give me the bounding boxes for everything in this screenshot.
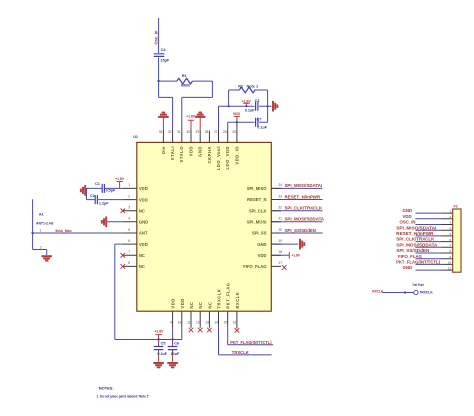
svg-text:0.5pF: 0.5pF [106, 189, 116, 193]
svg-text:30: 30 [186, 130, 190, 134]
svg-text:+1.8V: +1.8V [242, 99, 252, 103]
svg-text:26: 26 [223, 130, 227, 134]
svg-text:RXCLK: RXCLK [372, 289, 384, 293]
svg-text:VDD: VDD [139, 197, 148, 202]
svg-text:SPI_SS: SPI_SS [252, 231, 267, 236]
svg-text:OSC_IN: OSC_IN [400, 220, 416, 225]
svg-text:4: 4 [128, 217, 130, 221]
svg-text:XTALI: XTALI [170, 146, 175, 160]
svg-text:PKT_FLAG(INT/TCTL): PKT_FLAG(INT/TCTL) [396, 260, 441, 265]
svg-text:+1.8V: +1.8V [115, 177, 125, 181]
svg-text:C1: C1 [95, 182, 100, 186]
svg-text:1: 1 [128, 183, 130, 187]
svg-text:VDD_IO: VDD_IO [234, 146, 239, 165]
svg-text:GND: GND [403, 208, 413, 213]
svg-text:28: 28 [205, 130, 209, 134]
svg-text:10: 10 [448, 261, 452, 265]
svg-text:18: 18 [279, 250, 283, 254]
svg-text:32: 32 [168, 130, 172, 134]
svg-text:17: 17 [279, 261, 283, 265]
svg-text:GND: GND [257, 242, 266, 247]
svg-text:1. Do not place parts labeled: 1. Do not place parts labeled 'Note 1' [96, 394, 149, 398]
svg-text:33: 33 [159, 130, 163, 134]
svg-text:31: 31 [177, 130, 181, 134]
svg-text:6: 6 [128, 239, 130, 243]
svg-text:RXCLK: RXCLK [235, 292, 240, 309]
svg-text:R1: R1 [182, 74, 187, 78]
svg-text:27: 27 [214, 130, 218, 134]
svg-text:+1.8V: +1.8V [154, 330, 164, 334]
svg-text:3: 3 [128, 206, 130, 210]
svg-text:C4: C4 [161, 48, 167, 52]
svg-text:Osc_In: Osc_In [153, 30, 158, 44]
svg-text:PKT_FLAG(INT/TCTL): PKT_FLAG(INT/TCTL) [230, 340, 272, 345]
svg-text:U1: U1 [133, 135, 138, 139]
svg-text:9: 9 [170, 320, 172, 324]
svg-text:NC: NC [139, 264, 145, 269]
svg-text:R2: R2 [238, 85, 243, 89]
svg-text:5: 5 [128, 228, 130, 232]
svg-text:22: 22 [279, 206, 283, 210]
svg-text:SPI_CLK: SPI_CLK [249, 208, 267, 213]
svg-text:ANT: ANT [139, 231, 148, 236]
svg-text:RESET_N/InPWR: RESET_N/InPWR [285, 194, 321, 199]
svg-text:PKT_FLAG: PKT_FLAG [226, 282, 231, 308]
svg-text:15pF: 15pF [160, 58, 170, 62]
svg-text:+1.8V: +1.8V [291, 254, 301, 258]
svg-text:VDD: VDD [188, 146, 193, 156]
svg-text:XTALO: XTALO [179, 146, 184, 163]
svg-text:VDD: VDD [233, 112, 241, 116]
svg-text:NC: NC [139, 208, 145, 213]
svg-text:13: 13 [205, 320, 209, 324]
svg-text:15: 15 [224, 320, 228, 324]
svg-text:ANT1-2.4G: ANT1-2.4G [36, 222, 54, 226]
svg-text:NC: NC [139, 253, 145, 258]
svg-text:10: 10 [178, 320, 182, 324]
svg-text:SPI_SS/SDdEN: SPI_SS/SDdEN [396, 248, 429, 253]
svg-text:25: 25 [232, 130, 236, 134]
svg-text:21: 21 [279, 217, 283, 221]
svg-text:C5: C5 [161, 342, 166, 346]
svg-text:12: 12 [196, 320, 200, 324]
svg-text:TRXCLK: TRXCLK [419, 291, 433, 295]
svg-text:VDD: VDD [171, 298, 176, 308]
svg-text:GND: GND [403, 265, 413, 270]
svg-text:16: 16 [233, 320, 237, 324]
svg-text:2: 2 [128, 194, 130, 198]
svg-text:0.1uF: 0.1uF [245, 109, 255, 113]
svg-text:0.1uF: 0.1uF [257, 125, 267, 129]
svg-text:LDO_VDD: LDO_VDD [225, 146, 230, 170]
svg-text:10uF: 10uF [171, 352, 180, 356]
svg-text:680K: 680K [181, 84, 190, 88]
svg-text:RESET_N: RESET_N [247, 197, 266, 202]
svg-text:Note 1: Note 1 [247, 85, 259, 89]
svg-text:NOTES:: NOTES: [99, 385, 114, 390]
svg-text:1: 1 [40, 228, 42, 232]
svg-text:TRXCLK: TRXCLK [232, 350, 249, 355]
svg-text:SPI_MOSI/SDDATA: SPI_MOSI/SDDATA [396, 242, 437, 247]
svg-text:11: 11 [448, 266, 451, 270]
svg-text:2: 2 [40, 245, 42, 249]
svg-text:SPI_MISO/SDATAI: SPI_MISO/SDATAI [396, 225, 436, 230]
svg-text:14: 14 [214, 320, 218, 324]
svg-text:C2: C2 [90, 194, 95, 198]
svg-text:NC: NC [207, 302, 212, 309]
svg-text:Test Point: Test Point [412, 283, 424, 287]
svg-text:GND: GND [198, 146, 203, 157]
svg-text:1.2pF: 1.2pF [99, 202, 109, 206]
svg-text:Die: Die [161, 146, 166, 154]
svg-text:VDD: VDD [258, 253, 267, 258]
svg-text:23: 23 [279, 194, 283, 198]
svg-text:19: 19 [279, 239, 283, 243]
svg-text:VDD: VDD [139, 242, 148, 247]
svg-text:SPI_MOSI/SDDATA: SPI_MOSI/SDDATA [285, 217, 325, 222]
svg-text:NC: NC [189, 302, 194, 309]
svg-text:C6: C6 [174, 342, 179, 346]
svg-text:CKPHA: CKPHA [207, 146, 212, 163]
svg-text:GND: GND [139, 220, 148, 225]
svg-text:5mA_Max: 5mA_Max [55, 229, 72, 233]
svg-text:NC: NC [198, 302, 203, 309]
svg-text:SPI_CLK/TRXCLK: SPI_CLK/TRXCLK [285, 206, 323, 211]
svg-text:20: 20 [279, 228, 283, 232]
svg-text:+1.8V: +1.8V [186, 115, 196, 119]
svg-text:24: 24 [279, 183, 283, 187]
svg-text:A1: A1 [39, 213, 44, 217]
svg-text:29: 29 [196, 130, 200, 134]
svg-text:SPI_SS/SDdEN: SPI_SS/SDdEN [285, 228, 316, 233]
svg-text:TRXCLK: TRXCLK [217, 289, 222, 309]
svg-text:C7: C7 [257, 118, 262, 122]
svg-text:SPI_MOSI: SPI_MOSI [247, 220, 267, 225]
svg-text:11: 11 [187, 320, 191, 324]
svg-text:0.1uF: 0.1uF [157, 352, 167, 356]
svg-text:SPI_MISO: SPI_MISO [247, 186, 268, 191]
svg-text:VDD: VDD [180, 298, 185, 308]
svg-text:SPI_MISO/SDATAI: SPI_MISO/SDATAI [285, 183, 323, 188]
svg-text:VDD: VDD [403, 214, 412, 219]
svg-text:LDO_Vout: LDO_Vout [216, 146, 221, 170]
svg-text:VDD: VDD [139, 186, 148, 191]
svg-text:FIFO_FLAG: FIFO_FLAG [243, 264, 266, 269]
svg-text:SPI_CLK/TRXCLK: SPI_CLK/TRXCLK [396, 237, 435, 242]
svg-text:8: 8 [128, 261, 130, 265]
svg-text:C3: C3 [255, 99, 260, 103]
svg-text:RESET_N/InPWR: RESET_N/InPWR [396, 231, 434, 236]
svg-text:P2: P2 [454, 205, 458, 209]
svg-text:FIFO_FLAG: FIFO_FLAG [398, 254, 423, 259]
svg-text:7: 7 [128, 250, 130, 254]
